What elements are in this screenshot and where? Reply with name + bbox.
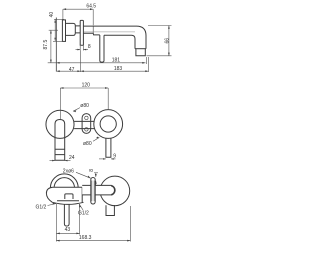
- svg-text:64.5: 64.5: [86, 3, 96, 9]
- svg-text:2xø6: 2xø6: [63, 168, 74, 174]
- svg-text:G1/2: G1/2: [36, 205, 47, 211]
- svg-text:66: 66: [164, 38, 170, 44]
- svg-text:24: 24: [69, 155, 75, 161]
- svg-text:181: 181: [112, 58, 121, 64]
- svg-text:120: 120: [82, 82, 91, 88]
- svg-text:ø80: ø80: [80, 103, 89, 109]
- svg-text:87.5: 87.5: [43, 40, 49, 50]
- svg-text:47: 47: [69, 67, 75, 73]
- svg-text:ø80: ø80: [83, 141, 92, 147]
- svg-text:43: 43: [65, 227, 71, 233]
- svg-text:40: 40: [49, 12, 55, 18]
- svg-text:G1/2: G1/2: [78, 211, 89, 217]
- svg-text:168.3: 168.3: [79, 235, 92, 241]
- svg-text:183: 183: [114, 66, 123, 72]
- svg-text:9: 9: [113, 153, 116, 159]
- svg-text:8: 8: [88, 44, 91, 50]
- svg-text:8: 8: [89, 169, 95, 172]
